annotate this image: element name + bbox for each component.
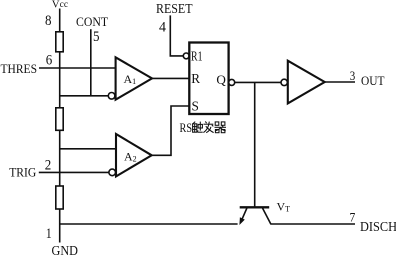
transistor VT base bar <box>240 206 270 208</box>
wire buffer output to OUT <box>325 81 355 83</box>
Chinese character fa (emit) <box>203 121 213 132</box>
A1 inverting input bubble <box>108 93 115 100</box>
Chinese character chu (touch) <box>193 122 203 133</box>
svg-text:RESET: RESET <box>156 2 193 17</box>
svg-text:RS: RS <box>180 120 193 135</box>
wire RESET to R1 bubble <box>170 15 183 56</box>
buffer input bubble <box>281 79 287 85</box>
svg-text:GND: GND <box>52 243 79 255</box>
svg-text:THRES: THRES <box>1 61 38 76</box>
wire divider tap to A1 inverting bubble <box>60 95 108 97</box>
wire A2 output to S input <box>152 106 190 155</box>
wire Vcc to R1 <box>59 9 61 33</box>
transistor VT collector <box>263 208 271 224</box>
svg-text:TRIG: TRIG <box>9 164 36 179</box>
wire R2 to R3 <box>59 130 61 186</box>
wire collector to DISCH <box>270 223 355 225</box>
svg-text:6: 6 <box>46 53 53 69</box>
svg-text:8: 8 <box>45 13 52 29</box>
resistor R3 (lower divider) <box>56 186 63 209</box>
transistor VT emitter with arrow <box>241 208 247 222</box>
svg-text:3: 3 <box>350 68 356 83</box>
svg-text:R1: R1 <box>191 48 203 63</box>
svg-text:CONT: CONT <box>76 14 108 29</box>
svg-text:S: S <box>192 98 199 113</box>
Q output bubble <box>229 79 235 85</box>
resistor R1 (upper divider) <box>56 32 63 52</box>
wire Q node to transistor base <box>254 82 256 206</box>
wire CONT vertical <box>90 29 92 96</box>
wire GND rail <box>60 223 238 225</box>
wire Q to buffer bubble <box>235 81 281 83</box>
svg-text:2: 2 <box>45 158 52 174</box>
wire divider tap to A2 noninverting input <box>60 148 116 150</box>
A2 inverting input bubble <box>109 169 116 176</box>
svg-text:4: 4 <box>159 20 166 36</box>
RS flip-flop box U1 <box>189 43 228 115</box>
svg-text:Q: Q <box>216 72 226 87</box>
Chinese character qi (device) <box>215 122 227 133</box>
wire THRES to A1 noninverting input <box>39 67 116 69</box>
resistor R2 (middle divider) <box>56 108 63 131</box>
svg-text:7: 7 <box>350 210 356 225</box>
op-amp A1 (threshold comparator) <box>116 57 152 99</box>
svg-text:R: R <box>191 71 200 86</box>
output buffer G1 <box>288 61 325 104</box>
svg-text:1: 1 <box>46 226 52 242</box>
wire A1 output to R input <box>152 77 189 79</box>
wire R3 to GND pin 1 stub <box>59 209 61 243</box>
R1 input bubble <box>183 53 189 59</box>
svg-text:5: 5 <box>93 29 100 45</box>
op-amp A2 (trigger comparator) <box>116 134 152 176</box>
wire R1 to R2 <box>59 52 61 108</box>
svg-text:OUT: OUT <box>361 73 385 88</box>
wire TRIG to A2 inverting bubble <box>39 171 109 173</box>
svg-text:DISCH: DISCH <box>360 220 396 235</box>
